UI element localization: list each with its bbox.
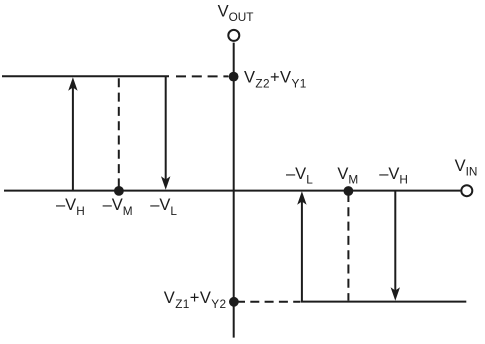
node VZ2+VY1 junction dot [229, 72, 239, 82]
node VOUT terminal circle [228, 30, 239, 41]
wire: left down arrow shaft [165, 76, 167, 183]
wire: y-axis VOUT [233, 43, 235, 338]
wire: dashed segment upper level to node [176, 75, 229, 77]
wire: right up arrow shaft [301, 198, 303, 302]
wire: right down arrow shaft [394, 192, 396, 295]
wire: upper output level solid line [2, 75, 169, 77]
arrowhead up left [68, 77, 77, 91]
wire: left up arrow shaft [72, 84, 74, 190]
arrowhead down left [161, 176, 170, 190]
arrowhead up right [297, 191, 306, 205]
node VIN terminal circle [461, 185, 472, 196]
wire: lower output level solid line [301, 301, 466, 303]
node VM junction dot [344, 186, 354, 196]
arrowhead down right [391, 287, 400, 301]
node -VM junction dot [114, 186, 124, 196]
node VZ1+VY2 junction dot [229, 297, 239, 307]
wire: x-axis VIN [4, 190, 460, 192]
wire: dashed segment node to lower level [236, 301, 301, 303]
wire: dashed vertical at -VM [118, 78, 120, 188]
wire: dashed vertical at VM right [347, 193, 349, 301]
